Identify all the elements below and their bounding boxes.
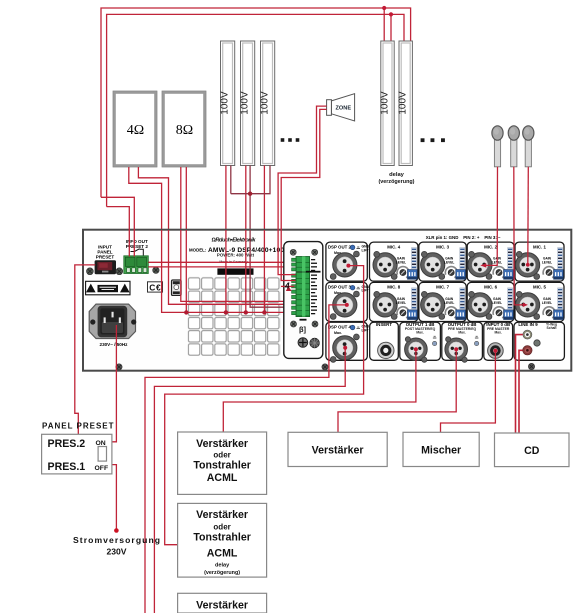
- black divider label: [306, 271, 321, 273]
- svg-text:MIC. 3: MIC. 3: [436, 244, 449, 249]
- wire 100V col1 right to common bus: [230, 166, 232, 194]
- terminal strip labels: [311, 259, 317, 314]
- svg-text:(verzögerung): (verzögerung): [379, 179, 415, 185]
- junction dot bus x=245.8: [244, 310, 248, 314]
- junction dot bus x=186.3: [184, 310, 188, 314]
- svg-text:PRESET: PRESET: [96, 255, 115, 260]
- wire 8-ohm right terminal into panel: [185, 167, 187, 230]
- screw panel bottom center: [322, 364, 328, 370]
- wire zone speaker feed 1 (to DSP terminal strip): [278, 106, 327, 275]
- svg-text:PRES.2: PRES.2: [48, 438, 86, 450]
- box Verstaerker/Tonstrahler ACML 1: [178, 432, 267, 494]
- junction dot OUTPUT 0dB: [454, 347, 458, 351]
- wire 4-ohm left terminal into panel: [129, 167, 162, 230]
- wire PRES switch OFF to mains: [112, 465, 117, 529]
- module MIC. 1: [515, 242, 564, 281]
- svg-text:MODEL:: MODEL:: [189, 247, 207, 252]
- svg-text:230V: 230V: [106, 547, 126, 557]
- svg-text:PANEL PRESET: PANEL PRESET: [42, 422, 114, 431]
- svg-text:LIFT: LIFT: [362, 328, 370, 332]
- fuse holder icon: [172, 280, 182, 295]
- wire zone speaker feed 2 (to DSP terminal strip): [281, 109, 326, 280]
- wire DSP OUT 2 to ACML delay box: [165, 266, 364, 545]
- RCA jack white: [523, 330, 532, 339]
- wire 8-ohm left to strip: [181, 230, 296, 301]
- svg-text:oder: oder: [213, 451, 230, 460]
- vent grid lower: [187, 316, 280, 356]
- GND text under strip: [300, 319, 307, 321]
- junction dot DSP OUT 2: [346, 264, 350, 268]
- box Mischer: [403, 432, 479, 466]
- arrowhead into MIC.5: [523, 303, 528, 307]
- junction dot OUTPUT 1dB: [414, 347, 418, 351]
- RCA jack red: [523, 346, 532, 355]
- svg-text:LEVEL: LEVEL: [444, 301, 454, 305]
- wire 100V col3 left down to panel: [263, 166, 265, 231]
- svg-text:OFF: OFF: [95, 465, 109, 472]
- box Verstaerker: [288, 432, 387, 466]
- junction dot DSP OUT 3: [345, 303, 349, 307]
- svg-text:MIC. 8: MIC. 8: [387, 285, 400, 290]
- callout 4 with arrow at strip: [281, 285, 295, 287]
- module MIC. 3: [419, 242, 466, 281]
- wire mic1 to MIC.2 input: [486, 167, 498, 266]
- module OUTPUT 0 dB: [442, 322, 483, 363]
- svg-text:LEVEL: LEVEL: [542, 261, 552, 265]
- IEC power inlet: [89, 304, 136, 338]
- module MIC. 2: [467, 242, 514, 281]
- module LINE IN 9: [514, 322, 564, 360]
- box CD: [495, 433, 570, 467]
- screw strip module top-left: [290, 249, 296, 255]
- green terminal strip main section: [292, 273, 310, 317]
- wire mic2 to MIC.5 input: [514, 167, 524, 305]
- svg-text:MIC. 5: MIC. 5: [533, 285, 546, 290]
- wire col3 into bus: [263, 230, 265, 312]
- wire 4-ohm right terminal into panel: [138, 167, 168, 230]
- box Verstaerker/Tonstrahler ACML 3 (cut): [178, 593, 267, 613]
- 100V column speaker 3: [260, 41, 275, 166]
- svg-text:Tonstrahler: Tonstrahler: [193, 460, 251, 472]
- wire preset connector to PANEL PRESET box: [75, 265, 96, 434]
- knurled screw: [310, 338, 320, 348]
- screws inside LINE IN module: [534, 340, 540, 346]
- wire LINE IN red RCA to CD box: [519, 350, 523, 433]
- svg-text:oder: oder: [213, 523, 230, 532]
- svg-text:Tonstrahler: Tonstrahler: [193, 532, 251, 544]
- 100V column speaker 2: [240, 41, 255, 166]
- module OUTPUT 1 dB: [400, 322, 441, 363]
- wire top loop outer (left riser to delay column B): [101, 8, 411, 197]
- wire OUTPUT 1dB to ACML box: [223, 349, 416, 432]
- junction dot DSP OUT 4: [343, 346, 347, 350]
- wire DSP OUT 4 down left: [154, 348, 345, 613]
- screw strip module bottom-right: [312, 321, 318, 327]
- wire top loop inner: [107, 14, 404, 206]
- svg-text:Mischer: Mischer: [421, 445, 461, 457]
- svg-text:8Ω: 8Ω: [176, 123, 193, 138]
- svg-text:MIC. 7: MIC. 7: [436, 285, 449, 290]
- module DSP OUT 4: [326, 322, 370, 362]
- junction dot MIC.1 center: [526, 263, 530, 267]
- serial black bar: [217, 268, 253, 274]
- svg-text:100V: 100V: [260, 91, 271, 115]
- wire mic3 to MIC.1 input: [527, 167, 530, 264]
- svg-text:MIC. 6: MIC. 6: [484, 285, 497, 290]
- amplifier rear panel body: [83, 230, 571, 371]
- warning label: [86, 281, 130, 295]
- dot mains cord end: [114, 528, 119, 533]
- microphone 3: [523, 126, 534, 167]
- zone horn speaker: [327, 94, 355, 121]
- svg-text:100V: 100V: [220, 91, 231, 115]
- microphone 1: [492, 126, 503, 167]
- screw right of preset connector: [116, 268, 123, 275]
- svg-text:Verstärker: Verstärker: [196, 509, 248, 521]
- 100V delay column A: [380, 41, 395, 166]
- svg-text:Max.: Max.: [495, 331, 502, 335]
- ellipsis dots left group: [281, 138, 300, 142]
- wire DSP OUT 3 down left: [145, 305, 347, 613]
- module MIC. 4: [370, 242, 418, 281]
- svg-text:LEVEL: LEVEL: [444, 261, 454, 265]
- panel preset switch box: [42, 434, 112, 474]
- 100V column speaker 1: [220, 41, 235, 166]
- svg-text:100V: 100V: [398, 91, 409, 115]
- wire 8-ohm right to bus: [185, 230, 187, 312]
- junction dot on outer top loop: [382, 6, 386, 10]
- wire IEC inlet to PRES switch ON: [112, 325, 117, 442]
- module MIC. 5: [515, 282, 564, 321]
- junction dot bus x=225.9: [224, 310, 228, 314]
- svg-text:LEVEL: LEVEL: [542, 301, 552, 305]
- screw strip module bottom-left: [291, 321, 297, 327]
- junction dot on 100V common bus: [248, 192, 252, 196]
- svg-text:PRES.1: PRES.1: [48, 461, 86, 473]
- wire col2 into bus: [245, 230, 247, 312]
- junction dot on inner top loop: [389, 12, 393, 16]
- svg-text:ACML: ACML: [207, 548, 238, 560]
- module INSERT: [370, 322, 399, 361]
- wire col common to strip: [250, 230, 295, 307]
- module MIC. 7: [419, 282, 466, 321]
- svg-text:4Ω: 4Ω: [127, 123, 144, 138]
- wire INFO OUT lower to strip: [148, 266, 295, 268]
- module MIC. 8: [370, 282, 418, 321]
- box Verstaerker/Tonstrahler ACML 2 (delay): [178, 503, 267, 577]
- svg-text:LEVEL: LEVEL: [492, 301, 502, 305]
- svg-text:MIC. 2: MIC. 2: [484, 244, 497, 249]
- svg-text:C €: C €: [149, 283, 161, 293]
- CE mark: [148, 282, 163, 293]
- arrowhead into MIC.2: [480, 263, 486, 267]
- svg-text:MIC. 1: MIC. 1: [533, 244, 546, 249]
- svg-text:Schalt: Schalt: [547, 326, 558, 330]
- junction dot bus x=264.4: [262, 310, 266, 314]
- svg-text:Max.: Max.: [334, 331, 342, 335]
- svg-text:(verzögerung): (verzögerung): [204, 570, 240, 576]
- relay switch symbol above INFO OUT block: [131, 249, 144, 256]
- wire 100V col2 right through bus into panel: [249, 166, 251, 231]
- wire INFO OUT upper to strip: [148, 261, 295, 263]
- wire bus minus into strip: [162, 230, 296, 312]
- terminal block INFO OUT PRESET 2: [124, 256, 149, 274]
- wire 4-ohm right to strip: [169, 230, 296, 304]
- junction dot INPUT 0dB: [493, 349, 497, 353]
- svg-text:LEVEL: LEVEL: [396, 301, 406, 305]
- speaker box 4-ohm: [113, 91, 157, 167]
- svg-text:Max.: Max.: [458, 331, 465, 335]
- vent grid upper: [187, 277, 280, 317]
- wire 100V col1 left down to panel: [225, 166, 227, 231]
- screw right of INFO OUT block: [153, 267, 159, 273]
- svg-text:4: 4: [284, 281, 290, 290]
- ellipsis dots right group: [421, 138, 445, 142]
- svg-text:MIC. 4: MIC. 4: [387, 244, 400, 249]
- screw strip module top-right: [312, 249, 318, 255]
- svg-text:LEVEL: LEVEL: [396, 261, 406, 265]
- svg-text:XLR pin 1: GND PIN 2: +: XLR pin 1: GND PIN 2: + PIN 3: –: [426, 235, 501, 240]
- screw left of preset connector: [87, 268, 94, 275]
- DSP terminal strip module frame: [284, 242, 323, 359]
- svg-text:ZONE: ZONE: [336, 106, 352, 112]
- svg-text:CD: CD: [524, 445, 540, 457]
- wire branch to delay column A left: [383, 8, 385, 41]
- svg-text:Verstärker: Verstärker: [196, 438, 248, 450]
- wire left loop lower corner to INFO OUT terminal: [101, 197, 134, 256]
- wire 100V common bus: [231, 166, 270, 194]
- module DSP OUT 3: [326, 282, 370, 321]
- wire col1 into bus: [225, 230, 227, 312]
- speaker box 8-ohm: [162, 91, 206, 167]
- wire branch to delay column A right: [390, 14, 392, 41]
- wire INPUT 0dB to Mischer box: [441, 351, 496, 433]
- svg-text:POWER: 400 Watt: POWER: 400 Watt: [217, 253, 255, 258]
- svg-text:delay: delay: [215, 563, 230, 569]
- wire OUTPUT 0dB to Verstaerker box: [338, 349, 456, 432]
- ground terminal circle: [298, 338, 308, 348]
- module DSP OUT 2: [326, 242, 370, 281]
- screw panel bottom left: [116, 364, 122, 370]
- svg-text:Max.: Max.: [416, 331, 423, 335]
- wire 100V col2 left down to panel: [245, 166, 247, 231]
- svg-text:100V: 100V: [240, 91, 251, 115]
- svg-text:230V~ / 50Hz: 230V~ / 50Hz: [100, 342, 129, 347]
- svg-text:DSP OUT 2: DSP OUT 2: [328, 244, 352, 249]
- svg-text:β]: β]: [299, 325, 307, 334]
- module MIC. 6: [467, 282, 514, 321]
- microphone 2: [508, 126, 519, 167]
- green terminal strip upper section: [292, 257, 310, 273]
- connector input panel preset: [95, 260, 116, 274]
- wire 8-ohm left terminal into panel: [180, 167, 182, 230]
- wire inner loop lower corner to INFO OUT terminal: [107, 207, 130, 257]
- svg-text:LINE IN 9: LINE IN 9: [518, 322, 538, 327]
- svg-text:LIFT: LIFT: [362, 289, 370, 293]
- 100V delay column B: [398, 41, 413, 166]
- screw panel bottom right: [528, 363, 534, 369]
- svg-text:delay: delay: [389, 172, 405, 178]
- svg-text:INSERT: INSERT: [376, 322, 392, 327]
- svg-text:DSP OUT 3: DSP OUT 3: [328, 285, 352, 290]
- module INPUT 0 dB: [484, 322, 513, 361]
- svg-text:Verstärker: Verstärker: [312, 445, 364, 457]
- wire LINE IN white RCA to CD box: [516, 335, 523, 433]
- svg-text:Stromversorgung: Stromversorgung: [73, 535, 160, 545]
- svg-text:LIFT: LIFT: [362, 248, 370, 252]
- svg-text:100V: 100V: [380, 91, 391, 115]
- svg-text:ACML: ACML: [207, 472, 238, 484]
- svg-text:DSP OUT 4: DSP OUT 4: [328, 324, 352, 329]
- svg-text:Verstärker: Verstärker: [196, 600, 248, 612]
